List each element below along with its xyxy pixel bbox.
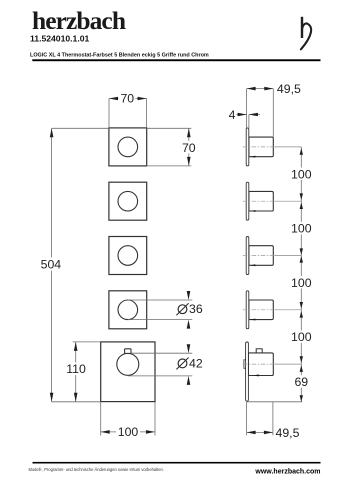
label 110 (65, 363, 88, 376)
svg-text:100: 100 (291, 330, 312, 344)
ext line 49.5bot right (272, 402, 274, 435)
arrow 70right up (187, 128, 191, 137)
handle circle 4 (118, 300, 138, 320)
side knob 2 (243, 182, 301, 220)
svg-text:70: 70 (182, 141, 196, 155)
svg-text:www.herzbach.com: www.herzbach.com (254, 469, 320, 476)
svg-text:4: 4 (229, 108, 236, 122)
plate square 3 (109, 237, 147, 275)
dim line 4 left tail (237, 114, 247, 116)
handle 2 mark (250, 210, 255, 212)
leader o42 top (131, 352, 192, 354)
chain arrows c2 (300, 193, 303, 200)
arrow o36 down (187, 291, 191, 300)
plate 4 side (246, 291, 249, 329)
thermostat plate square 5 (101, 342, 155, 402)
arrow 49.5top left (247, 87, 256, 91)
ext line 49.5bot left (246, 402, 248, 435)
label 504 (40, 258, 62, 271)
thermostat button notch front (125, 349, 131, 354)
ext line right70 bottom (147, 165, 192, 167)
arrow 4 right-pointing (238, 113, 247, 117)
ext line 100 left (100, 402, 102, 436)
label 100 seg1 (290, 168, 314, 181)
handle 2 side (249, 191, 273, 211)
leader o42 bottom (128, 375, 193, 377)
side knob 4 (243, 291, 301, 329)
svg-text:69: 69 (294, 375, 308, 389)
plate 5 side (246, 342, 249, 401)
side knob 1 (243, 128, 301, 166)
arrow 110 down (74, 393, 78, 402)
ext line 49.5top right (272, 89, 274, 137)
arrow 49.5top right (264, 87, 273, 91)
centerline knob3 (243, 255, 301, 257)
svg-text:110: 110 (66, 362, 86, 376)
chain dim line (300, 147, 302, 402)
ext line top70 right (146, 99, 148, 128)
label 100 seg3 (290, 276, 314, 289)
handle 4 side (249, 300, 273, 320)
dim line 4 right tail (249, 114, 260, 116)
centerline knob4 (243, 309, 301, 311)
handle circle 2 (118, 191, 138, 211)
label 70 right (181, 141, 197, 154)
arrow 100 left (101, 430, 110, 434)
handle 1 mark (250, 156, 255, 158)
svg-text:100: 100 (291, 167, 312, 181)
svg-text:70: 70 (120, 91, 134, 105)
ext line 4 (248, 115, 250, 128)
svg-text:100: 100 (291, 276, 312, 290)
arrow o42 up (187, 376, 191, 385)
svg-text:49,5: 49,5 (276, 426, 300, 440)
centerline knob2 (243, 200, 301, 202)
ext line 504 bottom (52, 401, 101, 403)
dim line 100 bottom (101, 431, 155, 433)
svg-text:herzbach: herzbach (32, 6, 126, 35)
handle 1 side (249, 137, 273, 157)
arrow 70top right (138, 97, 147, 101)
dim line 70 right (188, 128, 190, 166)
arrow o42 down (187, 344, 191, 353)
plate 3 side (246, 237, 249, 275)
plate square 4 (109, 291, 147, 329)
bottom ext line side (247, 401, 303, 403)
chain arrows c3 (300, 248, 303, 255)
ext line right70 top (147, 127, 192, 129)
ext line 110 top (73, 341, 101, 343)
side knob 3 (243, 237, 301, 275)
handle 5 mark (254, 374, 259, 376)
svg-text:LOGIC XL 4 Thermostat-Farbset: LOGIC XL 4 Thermostat-Farbset 5 Blenden … (30, 53, 209, 59)
thermostat handle circle 5 (117, 353, 139, 375)
leader o36 top (128, 299, 192, 301)
handle 5 side (248, 353, 273, 376)
label o42 (176, 356, 202, 370)
label o36 (176, 302, 202, 316)
svg-text:49,5: 49,5 (277, 82, 301, 96)
ext line 100 right (154, 402, 156, 436)
dim line 504 (51, 128, 53, 402)
svg-text:100: 100 (291, 222, 312, 236)
svg-text:100: 100 (118, 425, 139, 439)
arrow 504 up (50, 128, 54, 137)
handle 4 mark (250, 319, 255, 321)
label 70 top (119, 93, 136, 105)
svg-text:11.524010.1.01: 11.524010.1.01 (30, 34, 89, 44)
plate 2 side (246, 182, 249, 220)
handle circle 3 (118, 246, 138, 266)
arrow 49.5bot left (247, 431, 256, 435)
arrow 4 left-pointing (249, 113, 258, 117)
arrow 70right down (187, 157, 191, 166)
arrow 70top left (109, 97, 118, 101)
arrow o36 up (187, 320, 191, 329)
dim line 110 (75, 342, 77, 402)
centerline knob1 (243, 146, 301, 148)
dim line 70 top (109, 98, 147, 100)
plate square 1 (109, 128, 147, 166)
svg-text:42: 42 (189, 356, 203, 370)
plate 1 side (246, 128, 249, 166)
ext line 49.5top left (246, 89, 248, 128)
arrow 504 down (50, 393, 54, 402)
arrow 100 right (146, 430, 155, 434)
arrow 49.5bot right (264, 431, 273, 435)
ext line 504 top (52, 127, 109, 129)
chain arrows c5 (300, 356, 303, 363)
handle 3 mark (250, 264, 255, 266)
dim line 49.5 bottom (247, 431, 273, 433)
centerline knob5 (243, 363, 301, 365)
arrow 110 up (74, 342, 78, 351)
svg-text:504: 504 (41, 258, 62, 272)
chain arrow up at c1 (300, 148, 303, 155)
label 69 (293, 375, 311, 388)
svg-text:36: 36 (189, 302, 203, 316)
side knob 5 thermostat (243, 342, 301, 401)
label 100 bottom (116, 426, 140, 439)
handle circle 1 (118, 137, 138, 157)
ext line top70 left (108, 99, 110, 128)
logo h-glyph (301, 17, 311, 50)
plate square 2 (109, 182, 147, 220)
chain arrows c4 (300, 302, 303, 309)
header rule (32, 59, 320, 61)
label 100 seg2 (290, 222, 314, 235)
dim line 49.5 top (247, 88, 274, 90)
thermostat button notch side (256, 349, 262, 354)
label 100 seg4 (290, 330, 314, 343)
leader o36 bottom (128, 319, 192, 321)
svg-text:Modell-, Programm- und technis: Modell-, Programm- und technische Änderu… (29, 467, 164, 472)
footer rule (33, 462, 321, 464)
handle 3 side (249, 246, 273, 266)
plate 5 bump (244, 360, 246, 369)
chain arrow down bottom (300, 395, 303, 402)
